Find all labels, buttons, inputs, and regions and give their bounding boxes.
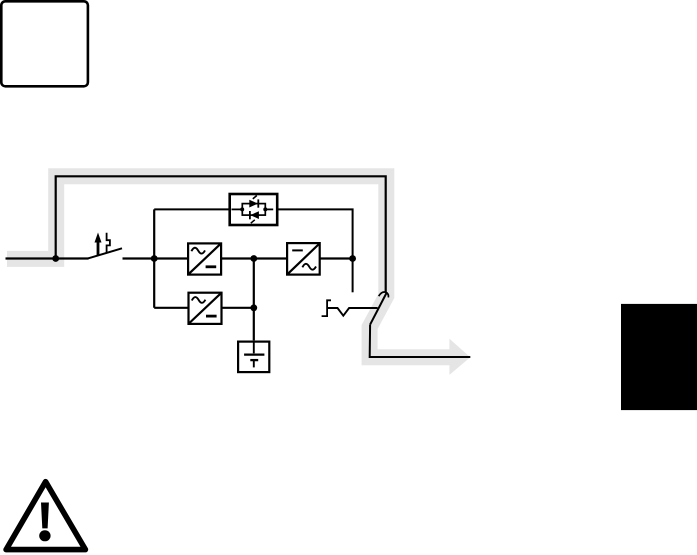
charger box: [189, 293, 222, 324]
wire: DC link: [221, 257, 287, 259]
wire: input switch to rectifier: [123, 257, 188, 259]
static bypass: thyristor top (right-pointing): [249, 196, 258, 208]
node: output junction: [349, 255, 356, 262]
wire: inverter output: [320, 257, 353, 259]
node: input junction: [52, 255, 59, 262]
transfer switch blade: [370, 292, 387, 325]
gray flow arrowhead: [449, 339, 470, 375]
wire: output drop to transfer switch: [352, 259, 354, 293]
node: DC link junction: [250, 255, 257, 262]
wire: charger to mid bus: [222, 307, 254, 309]
static bypass: thyristor bottom (left-pointing): [250, 211, 259, 223]
input breaker: latch symbol: [107, 233, 110, 253]
wire: left bus to charger: [154, 307, 188, 309]
static bypass switch box: [230, 194, 278, 225]
transfer switch travel arc: [379, 292, 389, 297]
rectifier box: [188, 243, 221, 274]
wire: bypass riser, top bus and right drop: [56, 176, 386, 293]
black sidebar block: [621, 304, 697, 410]
static bypass: left lead: [232, 208, 243, 210]
node: rectifier input junction: [151, 255, 158, 262]
battery box: [238, 342, 269, 373]
node: charger junction: [250, 304, 257, 311]
static bypass: right lead: [265, 208, 273, 210]
wire: bypass feed: [154, 208, 229, 210]
gray power flow path: [7, 176, 451, 357]
wire: left bus: [153, 209, 155, 307]
wire: mains input: [6, 257, 89, 259]
battery symbol: [244, 342, 264, 367]
static bypass: loop: [242, 204, 265, 216]
rounded info box (top-left): [1, 1, 88, 86]
output breaker: bracket: [322, 300, 331, 316]
inverter box: [287, 243, 320, 275]
wire: mid bus down to battery: [253, 259, 255, 341]
wire: output feed along arrow: [370, 325, 471, 357]
output breaker: wire with trip notch: [327, 308, 378, 316]
input breaker: trip arrow: [95, 233, 102, 257]
warning triangle: [6, 482, 85, 550]
input breaker: blade: [88, 248, 123, 258]
static bypass: left node: [240, 207, 244, 211]
static bypass: right node: [263, 207, 267, 211]
wire: bypass output: [279, 209, 353, 258]
